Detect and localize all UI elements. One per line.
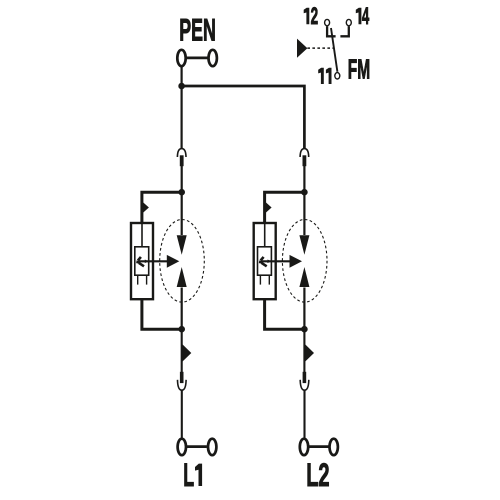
contact lever 11 [331,28,337,72]
contact seat 12 [327,26,336,36]
terminal L2 left [300,439,308,455]
wire to terminal L1 [181,390,183,438]
arrow head L1 [167,255,180,268]
disconnect receptacle bottom L1 [178,380,187,390]
contact pin circle 14 [346,19,351,25]
wire branch loop bottom L1 [142,300,182,329]
terminal L2 right [330,439,338,455]
plug direction marker bottom L2 [305,344,314,362]
wire gap to node L2 [303,288,305,330]
terminal PEN left [177,50,185,66]
wire node to pin L2 [303,329,305,372]
wire case top to element L1 [141,223,143,247]
svg-text:4: 4 [362,3,370,30]
wire branch loop bottom L2 [265,300,305,329]
svg-text:FM: FM [348,54,370,85]
wire L1 pin to node [181,166,183,192]
terminal L1 right [208,439,216,455]
actuator arrow [297,39,307,58]
terminal PEN right [209,50,217,66]
arrow head L2 [290,255,303,268]
wire branch loop top L2 [265,192,305,222]
varistor element box L1 [135,247,149,275]
svg-text:PEN: PEN [179,13,216,48]
varistor element box L2 [258,247,272,275]
lightning bolt L2 [261,257,267,266]
plug direction marker top L1 [142,201,149,214]
dashed ellipse spark gap L2 [282,219,327,302]
wire top bus [182,86,305,149]
wire PEN down [181,66,183,86]
arrow element to spark gap L2 [262,260,291,262]
disconnect receptacle top L1 [177,149,186,157]
electrode leg left L2 [259,276,261,285]
SPD module case L2 [254,223,276,299]
terminal L1 left [178,439,186,455]
wire L1 terminal link [187,445,207,448]
wire L2 terminal link [309,445,329,448]
wire case top to element L2 [264,223,266,247]
spark gap arrow bottom L1 [177,267,187,287]
contact pin circle 12 [325,19,330,25]
plug pin top L2 [303,155,307,166]
lightning bolt elbow L1 [136,260,140,263]
electrode leg right L2 [268,276,270,285]
wire node to pin L1 [181,329,183,372]
actuator dashed link [307,47,333,49]
svg-text:L2: L2 [306,456,329,493]
spark gap arrow top L1 [177,235,187,255]
wire PEN terminal link [187,57,208,60]
node junction L2 bottom [301,326,308,333]
spark gap arrow top L2 [299,235,309,255]
node junction L2 top [301,189,308,196]
lightning bolt arrowhead L2 [268,260,272,264]
lightning bolt arrowhead L1 [145,260,149,264]
plug pin bottom L2 [303,372,307,383]
wire gap to node L1 [181,288,183,330]
label 12 [304,8,310,25]
arrow element to spark gap L1 [139,260,168,262]
label 14 [356,8,362,25]
wire node to gap L2 [303,192,305,235]
node junction L1 bottom [178,326,185,333]
label 11 [318,68,324,84]
plug direction marker top L2 [265,201,272,214]
plug direction marker bottom L1 [182,344,191,362]
electrode leg left L1 [137,276,139,285]
dashed ellipse spark gap L1 [160,219,205,302]
wire PEN junction to L1 branch [181,86,183,149]
plug pin bottom L1 [180,372,184,383]
contact pin circle 11 [335,73,340,79]
electrode leg right L1 [146,276,148,285]
wire L2 pin to node [303,166,305,192]
disconnect receptacle bottom L2 [300,380,309,390]
spark gap arrow bottom L2 [299,267,309,287]
wire node to gap L1 [181,192,183,235]
wire to terminal L2 [303,390,305,438]
wire branch loop top L1 [142,192,182,222]
svg-text:2: 2 [311,3,319,30]
contact seat 14 [340,26,348,36]
node junction PEN bus [178,83,185,90]
plug pin top L1 [180,155,184,166]
node junction L1 top [178,189,185,196]
lightning bolt elbow L2 [259,260,263,263]
lightning bolt L1 [138,257,144,266]
svg-text:L: L [183,456,194,493]
SPD module case L1 [131,223,153,299]
disconnect receptacle top L2 [300,149,309,157]
